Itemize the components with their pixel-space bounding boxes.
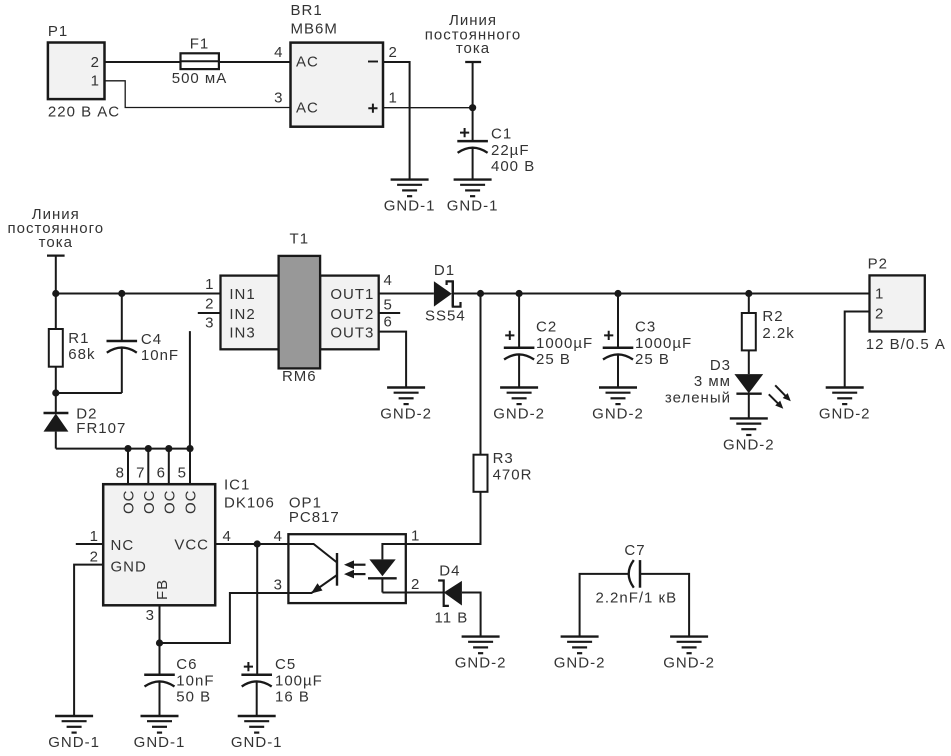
svg-text:8: 8: [116, 465, 125, 482]
wire T1 pin4 to D1: [379, 293, 434, 295]
svg-text:GND-1: GND-1: [231, 734, 283, 751]
svg-text:IN2: IN2: [229, 306, 255, 323]
svg-text:6: 6: [157, 465, 166, 482]
svg-text:F1: F1: [190, 35, 210, 52]
svg-text:OUT2: OUT2: [330, 306, 374, 323]
svg-text:D1: D1: [434, 262, 455, 279]
node A (R1 top): [52, 290, 59, 297]
svg-text:25 В: 25 В: [536, 351, 571, 368]
svg-text:GND-1: GND-1: [447, 198, 499, 215]
ground GND-2 (D3): [723, 418, 775, 453]
ground GND-2 (C7 right): [663, 637, 715, 672]
ground GND-1 (C6): [134, 716, 186, 751]
svg-text:OC: OC: [121, 490, 138, 515]
node: DC line junction: [469, 104, 476, 111]
svg-text:10nF: 10nF: [141, 347, 179, 364]
svg-text:PC817: PC817: [289, 509, 340, 526]
svg-text:3: 3: [205, 315, 214, 332]
ground GND-2 (T1 pin6): [380, 388, 432, 423]
svg-text:2.2nF/1 кВ: 2.2nF/1 кВ: [596, 590, 678, 607]
svg-text:IC1: IC1: [224, 477, 250, 494]
wire IC1 pin2 (GND) to ground: [74, 565, 103, 716]
svg-text:1: 1: [90, 528, 99, 545]
svg-text:2: 2: [205, 296, 214, 313]
wire IC1 VCC to OP1 pin4: [215, 543, 288, 545]
svg-text:OC: OC: [141, 490, 158, 515]
svg-text:2: 2: [875, 306, 884, 323]
svg-text:16 В: 16 В: [275, 689, 310, 706]
svg-text:4: 4: [223, 528, 232, 545]
wire DC bus to T1 pin1: [56, 293, 221, 295]
capacitor C5 100uF 16V: [241, 656, 322, 716]
transformer T1 RM6: [198, 230, 400, 384]
wire IC1 pin 5: [189, 449, 191, 485]
svg-text:220 В AC: 220 В AC: [48, 104, 120, 121]
capacitor C1 22uF 400V: [457, 126, 535, 176]
ground GND-1 (BR1 minus): [384, 180, 436, 215]
diode D1 SS54 (Schottky): [425, 262, 466, 325]
wire FB to OP1 pin3: [160, 593, 289, 643]
DC line terminal (left): [47, 256, 65, 294]
diode D2 FR107: [44, 393, 127, 449]
svg-text:DK106: DK106: [224, 495, 275, 512]
capacitor C2 1000uF 25V: [504, 294, 593, 388]
svg-text:AC: AC: [296, 54, 319, 71]
svg-text:R1: R1: [68, 330, 89, 347]
net label: DC line (left): [8, 206, 105, 251]
svg-text:GND-2: GND-2: [592, 406, 644, 423]
svg-text:RM6: RM6: [282, 368, 317, 385]
svg-text:R2: R2: [762, 308, 783, 325]
svg-text:2: 2: [90, 549, 99, 566]
svg-text:5: 5: [178, 465, 187, 482]
ground GND-2 (P2): [819, 388, 871, 423]
wire P1 pin1 to BR1 pin3: [105, 81, 291, 108]
wire IC1 FB pin3: [159, 605, 161, 643]
svg-text:1: 1: [389, 90, 398, 107]
ground GND-1 (C1): [447, 180, 499, 215]
svg-text:3: 3: [274, 90, 283, 107]
svg-text:2: 2: [91, 54, 100, 71]
wire T1 pin6 to ground: [379, 332, 406, 388]
svg-text:400 В: 400 В: [491, 158, 535, 175]
node pin7: [145, 445, 152, 452]
svg-text:R3: R3: [493, 450, 514, 467]
svg-text:4: 4: [274, 44, 283, 61]
svg-text:AC: AC: [296, 99, 319, 116]
svg-text:GND-2: GND-2: [380, 406, 432, 423]
svg-text:GND-2: GND-2: [723, 436, 775, 453]
DC line terminal (top): [465, 62, 481, 108]
capacitor C4 10nF: [107, 294, 180, 394]
svg-text:GND-1: GND-1: [134, 734, 186, 751]
zener diode D4 11V: [435, 563, 469, 627]
svg-text:GND: GND: [111, 559, 147, 576]
svg-text:зеленый: зеленый: [665, 390, 731, 407]
capacitor C7 2.2nF/1kV: [580, 542, 690, 637]
svg-text:C2: C2: [536, 319, 557, 336]
svg-text:T1: T1: [290, 230, 310, 247]
svg-text:470R: 470R: [493, 467, 533, 484]
ground GND-2 (C2): [493, 388, 545, 423]
svg-text:GND-2: GND-2: [663, 655, 715, 672]
capacitor C3 1000uF 25V: [603, 294, 692, 388]
svg-text:OC: OC: [161, 490, 178, 515]
node C2 top: [516, 290, 523, 297]
resistor R2 2.2k: [742, 294, 795, 351]
svg-text:C6: C6: [176, 656, 197, 673]
svg-text:1: 1: [411, 528, 420, 545]
svg-text:OUT3: OUT3: [330, 325, 374, 342]
net label: DC line (top): [425, 12, 522, 57]
svg-text:2: 2: [411, 576, 420, 593]
node FB: [156, 639, 163, 646]
ground GND-1 (C5): [231, 716, 283, 751]
node pin6: [165, 445, 172, 452]
node VCC/C5: [254, 540, 261, 547]
connector P1: [48, 23, 120, 121]
svg-text:C3: C3: [635, 319, 656, 336]
svg-text:NC: NC: [111, 537, 135, 554]
svg-text:GND-1: GND-1: [48, 734, 100, 751]
svg-text:P2: P2: [868, 256, 888, 273]
svg-text:OC: OC: [183, 490, 200, 515]
svg-text:100µF: 100µF: [275, 672, 323, 689]
wire VCC node to C5: [256, 544, 258, 675]
bridge rectifier BR1 MB6M: [274, 2, 398, 127]
svg-text:6: 6: [384, 314, 393, 331]
node pin5: [186, 445, 193, 452]
svg-text:50 В: 50 В: [176, 689, 211, 706]
svg-text:FR107: FR107: [76, 420, 126, 437]
svg-text:C7: C7: [624, 542, 645, 559]
node pin8: [124, 445, 131, 452]
svg-text:FB: FB: [154, 579, 171, 600]
ground GND-2 (C7 left): [554, 637, 606, 672]
svg-text:P1: P1: [48, 23, 68, 40]
resistor R3 470R: [474, 294, 533, 492]
wire P1 pin2 to F1: [105, 61, 181, 63]
svg-text:3 мм: 3 мм: [694, 373, 731, 390]
LED D3 green 3mm: [665, 350, 791, 418]
wire OP1 pin1 to R3: [406, 492, 481, 544]
wire D1 to P2 pin1 (12V rail): [453, 293, 870, 295]
wire D2 to IC1 pin bus: [56, 448, 190, 450]
svg-text:OUT1: OUT1: [330, 286, 374, 303]
fuse F1: [172, 35, 228, 87]
svg-text:10nF: 10nF: [176, 672, 214, 689]
svg-text:VCC: VCC: [174, 537, 209, 554]
svg-text:Линияпостоянноготока: Линияпостоянноготока: [8, 206, 105, 251]
svg-text:C4: C4: [141, 331, 162, 348]
svg-text:5: 5: [384, 297, 393, 314]
wire IC1 pin 7: [147, 449, 149, 485]
pin stub IC1 pin1 (NC): [76, 543, 103, 545]
wire IC1 pin 6: [168, 449, 170, 485]
IC IC1 DK106: [90, 465, 275, 625]
svg-text:GND-2: GND-2: [819, 406, 871, 423]
wire BR1 pin1 to DC node: [383, 107, 473, 109]
ground GND-2 (C3): [592, 388, 644, 423]
svg-text:12 В/0.5 А: 12 В/0.5 А: [866, 336, 946, 353]
svg-text:22µF: 22µF: [491, 142, 530, 159]
svg-text:1: 1: [91, 73, 100, 90]
svg-text:SS54: SS54: [425, 308, 466, 325]
svg-text:3: 3: [146, 607, 155, 624]
connector P2: [866, 256, 946, 354]
ground GND-2 (D4): [455, 637, 507, 672]
svg-text:MB6M: MB6M: [291, 21, 338, 38]
svg-text:2.2k: 2.2k: [762, 325, 794, 342]
svg-text:25 В: 25 В: [635, 351, 670, 368]
wire C1 to ground: [472, 148, 474, 180]
svg-text:IN1: IN1: [229, 286, 255, 303]
svg-text:2: 2: [389, 44, 398, 61]
svg-text:3: 3: [274, 577, 283, 594]
svg-text:D3: D3: [710, 357, 731, 374]
svg-text:GND-2: GND-2: [493, 406, 545, 423]
svg-text:1: 1: [875, 285, 884, 302]
svg-text:C5: C5: [275, 656, 296, 673]
node C4 top: [118, 290, 125, 297]
node R3 top: [477, 290, 484, 297]
wire bus riser to T1 pin3: [189, 331, 191, 449]
svg-text:7: 7: [136, 465, 145, 482]
resistor R1 68k: [49, 294, 96, 394]
svg-text:IN3: IN3: [229, 325, 255, 342]
svg-text:4: 4: [274, 528, 283, 545]
svg-text:1000µF: 1000µF: [635, 335, 692, 352]
optocoupler OP1 PC817: [274, 495, 421, 604]
svg-text:68k: 68k: [68, 346, 95, 363]
svg-text:GND-1: GND-1: [384, 198, 436, 215]
wire C4 bottom to R1 bottom: [56, 392, 122, 394]
svg-text:4: 4: [384, 272, 393, 289]
wire BR1 pin2 to ground: [383, 62, 410, 180]
svg-text:Линияпостоянноготока: Линияпостоянноготока: [425, 12, 522, 57]
wire OP1 pin2 to D4: [406, 592, 444, 594]
svg-text:GND-2: GND-2: [554, 655, 606, 672]
svg-text:1: 1: [205, 276, 214, 293]
svg-text:C1: C1: [491, 126, 512, 143]
svg-text:D4: D4: [439, 563, 460, 580]
wire node to C1: [472, 108, 474, 141]
ground GND-1 (IC1 pin2): [48, 716, 100, 751]
node R2 top: [745, 290, 752, 297]
node B (R1/D2): [52, 389, 59, 396]
wire IC1 pin 8: [127, 449, 129, 485]
svg-text:11 В: 11 В: [435, 610, 469, 627]
svg-text:500 мА: 500 мА: [172, 70, 228, 87]
node C3 top: [614, 290, 621, 297]
svg-text:GND-2: GND-2: [455, 655, 507, 672]
wire P2 pin2 to ground: [845, 312, 870, 388]
wire F1 to BR1 pin4: [219, 61, 291, 63]
wire D4 to ground: [462, 593, 481, 637]
svg-text:1000µF: 1000µF: [536, 335, 593, 352]
svg-text:BR1: BR1: [291, 2, 323, 19]
capacitor C6 10nF 50V: [144, 643, 214, 716]
